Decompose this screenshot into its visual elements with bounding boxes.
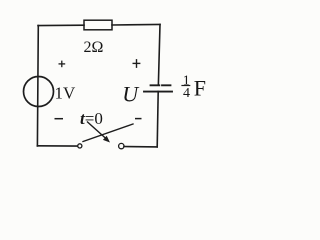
wire right vertical upper: [158, 24, 160, 83]
capacitor minus sign: [135, 118, 142, 120]
resistor R 2ohm: [84, 20, 112, 30]
switch left terminal: [78, 144, 82, 148]
switch closing arrow shaft: [88, 122, 107, 139]
switch blade: [83, 124, 133, 142]
svg-text:U: U: [122, 81, 140, 106]
wire top-left segment: [38, 24, 84, 26]
wire left vertical: [36, 26, 39, 146]
svg-text:1V: 1V: [55, 84, 77, 103]
wire right vertical lower: [157, 92, 158, 147]
svg-text:t=0: t=0: [80, 109, 103, 128]
capacitor C bottom plate: [144, 91, 172, 93]
fraction bar: [181, 85, 190, 87]
source minus sign: [55, 118, 64, 120]
voltage source 1V circle: [24, 77, 54, 107]
capacitor plus sign: [133, 59, 141, 68]
svg-text:F: F: [194, 76, 206, 101]
wire top-right segment: [112, 23, 160, 26]
wire bottom-left segment: [37, 145, 77, 147]
svg-text:4: 4: [183, 86, 190, 101]
switch right terminal: [119, 143, 124, 148]
capacitor C top plate: [151, 84, 171, 86]
switch closing arrowhead: [103, 136, 110, 143]
wire bottom-right segment: [124, 146, 157, 148]
svg-text:2Ω: 2Ω: [84, 39, 104, 56]
source plus sign: [59, 61, 66, 68]
